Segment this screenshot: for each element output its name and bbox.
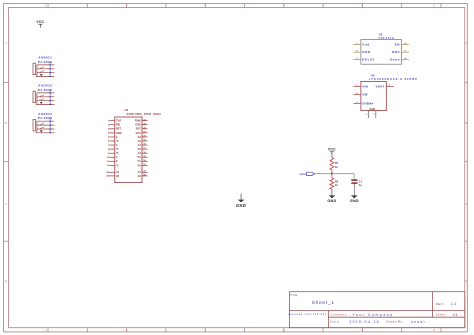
svg-text:GND: GND [135, 124, 141, 127]
svg-text:LTC3025ESC6-3.3#PBF: LTC3025ESC6-3.3#PBF [369, 77, 418, 81]
svg-text:U2: U2 [379, 33, 383, 37]
svg-text:D: D [465, 279, 467, 283]
svg-text:A: A [465, 41, 467, 45]
svg-text:1.0: 1.0 [451, 302, 457, 306]
svg-text:C1: C1 [359, 179, 363, 183]
svg-text:VCC: VCC [136, 132, 141, 135]
svg-text:GND: GND [362, 50, 371, 54]
svg-text:GND: GND [116, 132, 122, 135]
svg-text:*11: *11 [137, 160, 141, 163]
svg-text:GND: GND [327, 199, 336, 203]
svg-text:U5: U5 [371, 74, 375, 78]
svg-text:1/1: 1/1 [453, 313, 458, 317]
svg-text:2019-04-26: 2019-04-26 [350, 320, 380, 324]
svg-text:B: B [5, 121, 7, 125]
svg-text:vbat: vbat [300, 173, 306, 176]
svg-text:VIN: VIN [362, 84, 368, 88]
svg-text:C: C [465, 202, 467, 206]
svg-text:Vdd: Vdd [362, 43, 369, 47]
svg-text:DELAY: DELAY [362, 58, 375, 62]
svg-text:GND: GND [369, 107, 375, 111]
svg-text:Your Company: Your Company [353, 313, 394, 317]
svg-text:GND: GND [236, 203, 246, 208]
svg-text:R2: R2 [335, 179, 339, 183]
svg-text:*12: *12 [137, 156, 141, 159]
svg-text:A: A [5, 41, 7, 45]
svg-text:*10: *10 [137, 164, 141, 167]
svg-text:VCC: VCC [36, 20, 44, 24]
svg-text:Sheet_1: Sheet_1 [312, 300, 335, 305]
svg-text:onsar: onsar [411, 320, 426, 324]
svg-text:B: B [465, 121, 467, 125]
svg-text:SW: SW [362, 93, 367, 97]
svg-text:GND: GND [350, 199, 359, 203]
svg-text:VOUT: VOUT [375, 84, 384, 88]
svg-text:PJ-603A: PJ-603A [38, 88, 53, 92]
svg-text:EN: EN [395, 43, 400, 47]
svg-text:TXO: TXO [116, 120, 121, 123]
svg-text:PJ-603A: PJ-603A [38, 60, 53, 64]
svg-text:RAW: RAW [135, 120, 141, 123]
svg-text:RXI: RXI [116, 124, 120, 127]
svg-text:Done: Done [390, 58, 400, 62]
svg-text:1u: 1u [359, 183, 362, 187]
svg-text:DRV: DRV [392, 50, 400, 54]
svg-text:RST: RST [116, 128, 121, 131]
svg-text:C: C [5, 202, 7, 206]
svg-text:TITLE:: TITLE: [290, 294, 299, 297]
svg-text:PJ-603A: PJ-603A [38, 116, 53, 120]
svg-text:SHDN#: SHDN# [362, 102, 373, 106]
svg-text:ARDUINO_PRO_MINI: ARDUINO_PRO_MINI [126, 112, 161, 116]
svg-text:REV:: REV: [436, 302, 444, 306]
svg-text:Drawn By:: Drawn By: [387, 320, 404, 324]
svg-text:D: D [5, 279, 7, 283]
svg-text:VCC: VCC [328, 148, 336, 152]
svg-text:Sheet:: Sheet: [436, 313, 447, 317]
svg-text:easyeda.com-sch-doc: easyeda.com-sch-doc [288, 314, 327, 316]
svg-text:Company:: Company: [331, 313, 349, 317]
svg-text:R1: R1 [335, 161, 339, 165]
svg-text:Date:: Date: [331, 320, 341, 324]
svg-text:RST: RST [136, 128, 141, 131]
